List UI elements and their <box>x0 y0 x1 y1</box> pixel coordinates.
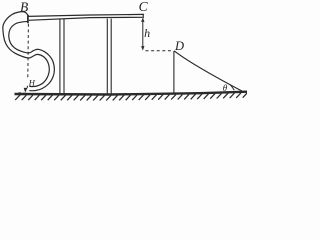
incline hypotenuse D to ground <box>174 51 243 92</box>
svg-text:D: D <box>174 39 184 53</box>
angle theta arc <box>230 84 235 90</box>
dashed line from h arrow to D <box>146 50 172 52</box>
pillar 2 <box>107 19 111 95</box>
svg-text:H: H <box>28 78 36 88</box>
tube mouth cap at B <box>27 15 29 23</box>
h measurement arrow (double headed) <box>141 18 144 51</box>
incline vertical side <box>173 51 175 93</box>
track right end cap at C <box>142 14 144 19</box>
arrowhead down at ground (end of H dashed line) <box>24 88 28 93</box>
svg-text:B: B <box>20 0 28 14</box>
exit velocity arrow pointing left along ground <box>19 93 26 95</box>
svg-text:h: h <box>144 26 150 40</box>
dashed vertical line B to ground (height H) <box>27 24 30 78</box>
ground <box>15 92 248 95</box>
horizontal track top line <box>28 14 144 16</box>
S-tube inner wall: mouth -> C inner -> valley upper -> D outer <box>9 22 55 91</box>
S-tube outer wall: track top -> C outer -> valley lower -> D inner <box>3 12 49 87</box>
pillar 1 <box>60 19 64 94</box>
horizontal track bottom line <box>28 17 142 20</box>
svg-text:C: C <box>139 0 149 14</box>
svg-text:θ: θ <box>223 83 228 93</box>
ground hatching <box>15 93 247 101</box>
